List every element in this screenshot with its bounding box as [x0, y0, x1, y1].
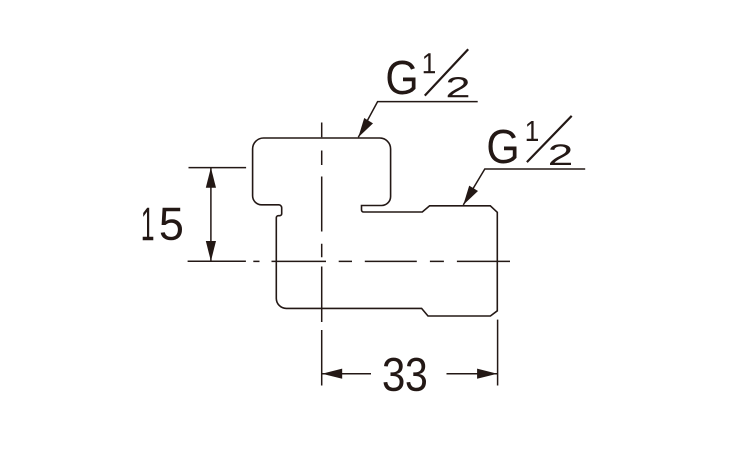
label G1/2 top: fraction slash [425, 49, 468, 95]
fitting body outline [253, 138, 498, 316]
label G1/2 right: numerator 1 [527, 121, 538, 141]
dim 33: right extension line [497, 320, 499, 386]
dim 15: dimension line [210, 168, 212, 262]
label G1/2 top: G [388, 61, 416, 95]
dim 15: arrowhead down [206, 241, 216, 261]
dim 15: top extension line [189, 167, 247, 169]
leader line right G1/2 [463, 169, 585, 205]
dim 15: bottom extension line [188, 260, 246, 262]
label G1/2 top: numerator 1 [424, 53, 435, 73]
vertical centerline (dash-dot) [321, 123, 323, 386]
label G1/2 right: G [489, 130, 517, 164]
label G1/2 top: denominator 2 [448, 77, 469, 97]
dim text 33 [384, 358, 427, 392]
leader arrowhead top G1/2 [358, 118, 373, 137]
horizontal centerline (dash-dot) [253, 260, 510, 262]
leader arrowhead right G1/2 [463, 186, 478, 205]
dim 33: arrowhead right [477, 369, 497, 379]
dim 15: arrowhead up [206, 168, 216, 188]
label G1/2 right: denominator 2 [550, 144, 571, 165]
leader line top G1/2 [358, 102, 477, 138]
dim text 15 [143, 208, 182, 241]
label G1/2 right: fraction slash [527, 116, 572, 162]
dim 33: arrowhead left [322, 369, 342, 379]
dim 33: dimension line left shaft [322, 373, 371, 375]
dim 33: dimension line right shaft [447, 373, 498, 375]
